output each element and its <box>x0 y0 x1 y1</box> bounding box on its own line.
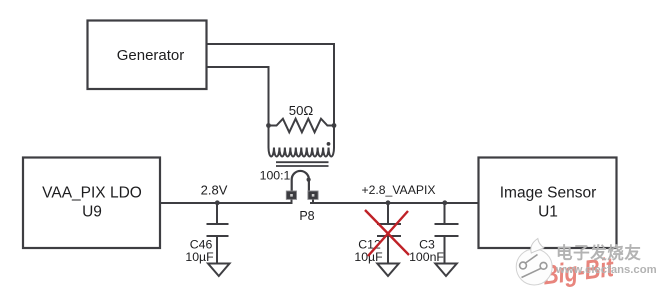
junction dot node 2.8V at C46 <box>215 200 220 205</box>
transformer secondary single-turn loop <box>292 171 309 192</box>
junction dot resistor left <box>266 123 271 128</box>
ground symbol at C3 <box>435 264 457 277</box>
svg-text:50Ω: 50Ω <box>289 103 314 118</box>
svg-text:VAA_PIX LDO: VAA_PIX LDO <box>42 185 142 202</box>
transformer primary phasing dot <box>327 142 331 146</box>
svg-text:10µF: 10µF <box>354 250 383 264</box>
svg-text:+2.8_VAAPIX: +2.8_VAAPIX <box>362 183 436 197</box>
regulator box U9 VAA_PIX LDO <box>23 158 160 249</box>
wire resistor left down to transformer primary <box>268 126 270 148</box>
wire generator top output to resistor right terminal <box>207 44 335 126</box>
svg-text:www.elecfans.com: www.elecfans.com <box>555 264 657 276</box>
probe P8 pin 2 (right square terminal) <box>308 191 318 199</box>
svg-text:电子发烧友: 电子发烧友 <box>556 243 642 263</box>
svg-text:100:1: 100:1 <box>260 169 291 183</box>
svg-text:U1: U1 <box>538 203 558 220</box>
transformer secondary phasing dot <box>307 178 311 182</box>
junction dot node at C3 <box>442 200 447 205</box>
probe P8 pin 1 (left square terminal) <box>286 191 296 199</box>
watermark logo disc <box>516 239 552 286</box>
svg-text:Image Sensor: Image Sensor <box>500 185 597 202</box>
red deletion cross over C12 <box>365 210 409 256</box>
svg-text:U9: U9 <box>82 203 102 220</box>
junction dot resistor right <box>332 123 337 128</box>
junction dot node at C12 <box>386 200 391 205</box>
capacitor C12 <box>377 203 401 264</box>
wire stub rail to probe pin 1 <box>291 199 293 203</box>
svg-text:10µF: 10µF <box>185 250 214 264</box>
transformer T1 primary winding <box>269 148 335 157</box>
wire stub rail to probe pin 2 <box>312 199 314 203</box>
svg-text:Generator: Generator <box>117 47 185 64</box>
ground symbol at C46 <box>208 264 230 277</box>
wire rail probe pin 2 to U1 input <box>310 202 479 204</box>
wire resistor right down to transformer primary <box>333 126 335 148</box>
svg-text:P8: P8 <box>299 209 314 223</box>
wire rail U9 output to probe pin 1 <box>160 202 293 204</box>
resistor 50 ohm <box>269 119 335 133</box>
ground symbol at C12 <box>377 264 399 277</box>
transformer core lines <box>276 162 329 166</box>
image sensor box U1 <box>479 158 617 249</box>
wire generator bottom output to resistor left terminal <box>207 67 269 126</box>
capacitor C46 <box>207 203 229 264</box>
svg-text:2.8V: 2.8V <box>201 183 228 198</box>
generator box <box>88 21 207 90</box>
svg-text:100nF: 100nF <box>409 250 444 264</box>
capacitor C3 <box>435 203 459 264</box>
